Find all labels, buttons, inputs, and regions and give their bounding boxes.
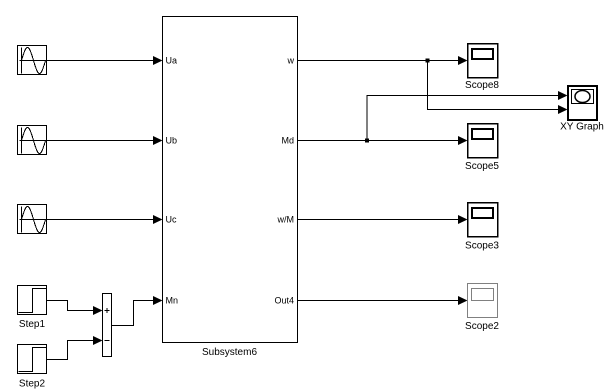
svg-text:Step2: Step2 — [19, 379, 46, 390]
sine curve icon 2 — [22, 128, 46, 154]
svg-text:Ub: Ub — [166, 136, 178, 146]
svg-text:Scope5: Scope5 — [465, 161, 499, 172]
subsystem block Subsystem6 — [163, 17, 298, 343]
wire w output to Scope8 — [298, 60, 460, 62]
svg-text:Uc: Uc — [166, 215, 177, 225]
sine curve icon 1 — [22, 48, 46, 74]
wire sine1 to Ua — [47, 60, 154, 62]
scope block Scope3 — [468, 203, 498, 237]
arrowhead into Scope8 — [458, 56, 468, 65]
arrowhead into Mn — [153, 296, 163, 305]
XY Graph block — [568, 86, 597, 120]
sum block — [103, 294, 112, 357]
svg-text:w: w — [287, 56, 295, 66]
step source block Step1 — [18, 286, 47, 315]
svg-text:Ua: Ua — [166, 56, 178, 66]
arrowhead into XY Graph upper input — [558, 91, 568, 100]
svg-text:Scope3: Scope3 — [465, 241, 499, 252]
arrowhead into Scope3 — [458, 215, 468, 224]
arrowhead into sum plus — [93, 306, 103, 315]
wire w branch down to XY Graph lower input — [428, 61, 560, 110]
junction dot on w wire — [426, 59, 430, 63]
arrowhead into Ua — [153, 56, 163, 65]
svg-text:Scope8: Scope8 — [465, 80, 499, 91]
wire sine2 to Ub — [47, 140, 154, 142]
svg-text:Scope2: Scope2 — [465, 321, 499, 332]
arrowhead into Scope2 — [458, 296, 468, 305]
wire sine3 to Uc — [47, 219, 154, 221]
arrowhead into XY Graph lower input — [558, 105, 568, 114]
arrowhead into sum minus — [93, 336, 103, 345]
svg-text:Md: Md — [281, 136, 294, 146]
junction dot on Md wire — [365, 139, 369, 143]
wire Md output to Scope5 — [298, 140, 460, 142]
svg-text:XY Graph: XY Graph — [560, 122, 604, 133]
wire w/M output to Scope3 — [298, 219, 460, 221]
scope block Scope2 (grayed) — [468, 284, 498, 318]
sine wave source block 3 — [18, 205, 48, 234]
scope block Scope8 — [468, 44, 498, 78]
svg-text:Step1: Step1 — [19, 319, 46, 330]
svg-text:Subsystem6: Subsystem6 — [202, 347, 257, 358]
arrowhead into Ub — [153, 136, 163, 145]
sine curve icon 3 — [22, 207, 46, 233]
svg-text:Out4: Out4 — [274, 296, 294, 306]
wire Md branch up to XY Graph upper input — [367, 96, 559, 141]
wire sum output to Mn — [112, 301, 155, 326]
wire Step2 to sum minus input — [47, 341, 94, 360]
scope block Scope5 — [468, 124, 498, 158]
svg-text:Mn: Mn — [166, 296, 179, 306]
sine wave source block 1 — [18, 46, 48, 75]
arrowhead into Scope5 — [458, 136, 468, 145]
sine wave source block 2 — [18, 126, 48, 155]
svg-text:w/M: w/M — [277, 215, 295, 225]
step source block Step2 — [18, 345, 47, 374]
wire Step1 to sum plus input — [47, 301, 94, 311]
wire Out4 output to Scope2 — [298, 300, 460, 302]
arrowhead into Uc — [153, 215, 163, 224]
